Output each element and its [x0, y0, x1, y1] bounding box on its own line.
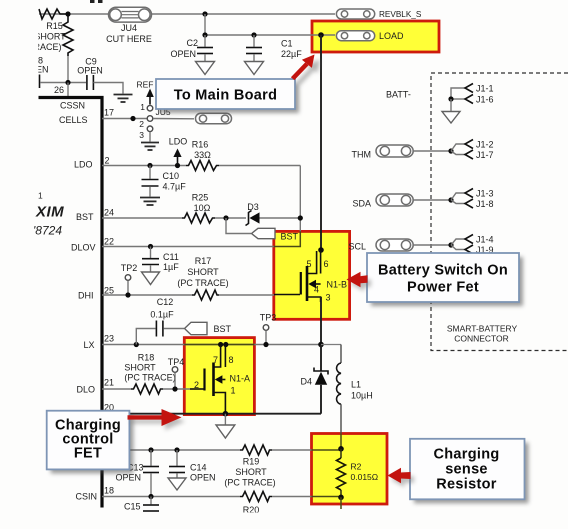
wire top rail y=14 — [39, 13, 109, 15]
wire DLOV pin 22 — [102, 246, 274, 248]
svg-text:TP3: TP3 — [260, 312, 277, 322]
wire C8 to node — [40, 82, 86, 84]
clipped marks top edge — [90, 0, 95, 3]
node C2 — [202, 32, 207, 37]
node TP4/DLO — [172, 386, 177, 391]
svg-text:OPEN: OPEN — [170, 49, 196, 59]
gate bar — [203, 369, 205, 391]
capacitor C15 (clipped) — [124, 497, 159, 512]
ground triangle C11 — [142, 272, 160, 285]
wire down to BST/D3 line — [299, 166, 301, 232]
svg-text:22µF: 22µF — [281, 49, 302, 59]
svg-text:R25: R25 — [192, 192, 209, 202]
node LDO arrow — [175, 163, 180, 168]
transistor Q N1-B power fet — [274, 247, 347, 302]
drain leads pins 5,6 — [307, 251, 317, 274]
node C10 — [147, 163, 152, 168]
svg-text:C11: C11 — [163, 252, 179, 262]
ground triangle C2 — [196, 62, 215, 75]
ground (bar style) at C9 — [114, 95, 133, 103]
highlight box around charging control fet N1-A — [184, 338, 254, 415]
svg-text:C2: C2 — [186, 38, 198, 48]
svg-text:J1-8: J1-8 — [476, 199, 494, 209]
svg-text:CONNECTOR: CONNECTOR — [454, 333, 509, 343]
jumper LOAD — [336, 31, 404, 41]
svg-text:SMART-BATTERY: SMART-BATTERY — [447, 323, 518, 333]
node C12 branch — [134, 342, 139, 347]
svg-text:Power Fet: Power Fet — [407, 280, 479, 296]
svg-text:BST: BST — [214, 324, 232, 334]
svg-text:10Ω: 10Ω — [194, 203, 211, 213]
svg-text:JU4: JU4 — [121, 23, 137, 33]
wire JU5 pin2 to jumper — [153, 118, 194, 120]
wire PGND pin 20 — [102, 413, 321, 415]
wire CSIN pin 18 — [102, 496, 240, 498]
capacitor C10 4.7uF — [142, 166, 187, 197]
svg-text:25: 25 — [104, 285, 114, 295]
svg-text:TP4: TP4 — [168, 357, 185, 367]
highlight box around power fet N1-B — [274, 231, 350, 319]
svg-text:1: 1 — [140, 102, 145, 112]
node R15 top — [65, 11, 70, 16]
diode D3 (zener) — [246, 202, 260, 226]
svg-text:N1-B: N1-B — [327, 280, 348, 290]
arrow to N1-B box — [347, 272, 372, 291]
svg-text:21: 21 — [104, 377, 114, 387]
svg-text:OPEN: OPEN — [190, 472, 216, 482]
wire DLO pin 21 — [102, 388, 131, 390]
arrow REF net — [137, 79, 154, 104]
svg-text:R16: R16 — [192, 139, 209, 149]
svg-text:CSSN: CSSN — [60, 100, 85, 110]
wire BST pin 24 — [102, 217, 182, 219]
svg-text:C1: C1 — [281, 38, 293, 48]
node C11 — [148, 244, 153, 249]
body arrow — [308, 280, 316, 289]
node top rail / C2 branch — [202, 11, 207, 16]
svg-text:XIM: XIM — [35, 203, 64, 220]
capacitor C1 22uF — [246, 35, 302, 61]
capacitor C11 1uF — [142, 247, 179, 273]
jumper THM — [352, 139, 494, 160]
svg-text:L1: L1 — [351, 379, 361, 389]
resistor R19 SHORT — [240, 445, 272, 455]
callout: To Main Board — [156, 79, 299, 113]
inductor L1 10uH — [321, 345, 373, 434]
node C13 top — [148, 447, 153, 452]
svg-text:TP2: TP2 — [121, 263, 138, 273]
svg-text:REF: REF — [137, 79, 154, 89]
mask clipped top-left corner — [0, 0, 38, 96]
svg-text:8: 8 — [229, 355, 234, 365]
svg-text:C15: C15 — [124, 501, 141, 511]
svg-text:C10: C10 — [163, 171, 180, 181]
svg-text:OPEN: OPEN — [115, 472, 141, 482]
svg-text:Resistor: Resistor — [436, 476, 496, 492]
arrow to R2 box — [388, 468, 415, 487]
svg-text:R15: R15 — [46, 21, 63, 31]
svg-text:10µH: 10µH — [351, 390, 373, 400]
wire CSIP pin 19 — [102, 449, 240, 451]
channel bar — [306, 266, 309, 301]
test point TP3 — [260, 312, 277, 344]
wire rail drop to second rail — [204, 14, 206, 35]
capacitor C8 (clipped) — [39, 75, 41, 89]
svg-text:sense: sense — [445, 462, 488, 478]
jumper JU4 — [106, 7, 152, 44]
wire LDO pin 2 — [102, 165, 186, 167]
svg-text:26: 26 — [54, 85, 64, 95]
svg-text:N1-A: N1-A — [230, 373, 251, 383]
diode D4 (zener) — [300, 345, 328, 414]
svg-text:DLO: DLO — [76, 384, 95, 394]
gate bar — [300, 272, 302, 295]
net flag BST (upper) — [252, 228, 276, 238]
wire R17 to N1-B gate — [219, 294, 274, 296]
highlight box around LOAD jumper — [312, 21, 439, 52]
svg-text:SDA: SDA — [352, 198, 371, 208]
node D3 right — [298, 215, 303, 220]
smart-battery connector dashed outline — [431, 73, 568, 351]
source lead pin 1 — [214, 393, 226, 414]
wire second rail y=35 — [205, 34, 335, 36]
svg-text:J1-1: J1-1 — [476, 83, 494, 93]
wire CSIN inside box (olive) — [312, 496, 342, 498]
svg-text:R19: R19 — [243, 456, 260, 466]
svg-text:D3: D3 — [247, 202, 259, 212]
svg-text:DLOV: DLOV — [71, 242, 96, 252]
svg-text:SHORT: SHORT — [124, 362, 156, 372]
jumper JU5 pin 3 — [147, 126, 153, 132]
connector pins J1-1 / J1-6 — [442, 83, 494, 123]
wire source node to ground — [224, 414, 226, 425]
node C1 — [251, 32, 256, 37]
svg-text:CUT HERE: CUT HERE — [106, 34, 152, 44]
svg-text:SCL: SCL — [348, 241, 366, 251]
svg-text:LDO: LDO — [74, 159, 93, 169]
svg-text:BST: BST — [76, 212, 94, 222]
body arrow — [215, 375, 223, 384]
svg-text:2: 2 — [194, 380, 199, 390]
svg-text:To Main Board: To Main Board — [174, 88, 278, 104]
wire DHI pin 25 — [102, 294, 192, 296]
svg-text:J1-6: J1-6 — [476, 94, 494, 104]
resistor R16 33ohm — [186, 161, 219, 171]
arrow to LOAD box — [291, 55, 320, 86]
svg-text:FET: FET — [74, 445, 102, 461]
wire R18 to N1-A gate — [163, 388, 190, 390]
svg-text:REVBLK_S: REVBLK_S — [379, 10, 422, 19]
wire R15 to C9 node — [67, 56, 69, 83]
resistor (clipped, left edge) — [39, 9, 66, 19]
svg-text:Battery Switch On: Battery Switch On — [378, 263, 508, 279]
jumper JU5 pin 1 — [147, 105, 153, 111]
net flag BST (lower) — [185, 322, 208, 334]
node N1-A source / PGND — [223, 411, 229, 417]
svg-text:R17: R17 — [195, 256, 212, 266]
svg-text:LX: LX — [83, 340, 94, 350]
svg-text:J1-2: J1-2 — [476, 139, 494, 149]
node C13 bottom / C15 — [148, 494, 153, 499]
svg-text:SHORT: SHORT — [34, 31, 66, 41]
node CSSN — [65, 80, 70, 85]
callout: Battery Switch On Power Fet — [367, 253, 523, 306]
jumper on CELLS — [196, 113, 232, 124]
svg-text:D4: D4 — [300, 376, 312, 386]
callout: Charging control FET — [47, 411, 134, 474]
node BST — [223, 215, 228, 220]
test point TP4 — [168, 357, 185, 389]
svg-text:J1-4: J1-4 — [476, 234, 494, 244]
wire BST node down to flag — [226, 218, 251, 234]
ground triangle C14 — [168, 478, 186, 490]
capacitor C13 OPEN — [115, 450, 159, 497]
svg-text:24: 24 — [104, 207, 114, 217]
capacitor C2 — [170, 35, 213, 61]
svg-text:BATT-: BATT- — [386, 89, 411, 99]
svg-text:(PC TRACE): (PC TRACE) — [177, 278, 228, 288]
node drain pins 7,8 — [218, 342, 223, 347]
gate lead pin 2 — [190, 388, 204, 390]
svg-text:CSIN: CSIN — [75, 491, 97, 501]
op-amp/controller IC U1 MAX8724 outline — [39, 98, 103, 508]
svg-text:'8724: '8724 — [33, 223, 62, 237]
capacitor C14 OPEN — [169, 450, 216, 482]
jumper JU5 pin 2 — [147, 116, 153, 122]
svg-text:0.1µF: 0.1µF — [150, 309, 174, 319]
wire R16 to D3 node — [219, 165, 300, 167]
wire LX inside box (olive) — [184, 344, 254, 346]
channel bar — [212, 363, 215, 397]
svg-text:LOAD: LOAD — [379, 31, 404, 41]
wire D3 to node — [260, 217, 301, 219]
ground (bar style) at C10 — [140, 198, 160, 206]
svg-text:6: 6 — [324, 259, 329, 269]
node TP2/DHI — [125, 292, 130, 297]
svg-text:J1-7: J1-7 — [476, 150, 494, 160]
svg-text:1: 1 — [231, 385, 236, 395]
resistor R17 SHORT — [192, 290, 219, 300]
ground (bar style) at JU5 — [141, 143, 159, 151]
svg-text:0.015Ω: 0.015Ω — [351, 472, 379, 482]
wire R20 to R2 box — [272, 496, 312, 498]
node C14 top — [174, 447, 179, 452]
svg-text:THM: THM — [352, 149, 372, 159]
svg-text:R2: R2 — [351, 461, 362, 471]
wire CELLS pin 17 — [102, 118, 147, 120]
svg-text:C14: C14 — [190, 462, 207, 472]
resistor R2 0.015ohm sense — [337, 434, 379, 510]
arrow LDO net — [169, 136, 188, 165]
svg-text:C12: C12 — [157, 297, 174, 307]
wire CSIP inside box (olive) — [312, 449, 342, 451]
jumper SDA — [352, 188, 493, 209]
node CELLS — [130, 116, 135, 121]
wire JU5 pin3 to ground — [149, 132, 151, 142]
pin 26 stub into IC — [67, 83, 69, 97]
highlight box around sense resistor R2 — [312, 434, 388, 505]
wire R25 to D3 — [215, 217, 246, 219]
svg-text:(PC TRACE): (PC TRACE) — [224, 477, 275, 487]
resistor R18 SHORT — [131, 384, 163, 394]
wire LOAD rail down to N1-B — [320, 35, 322, 250]
wire C9 to ground — [93, 83, 123, 94]
svg-text:3: 3 — [326, 293, 331, 303]
node TP3/LX — [263, 342, 268, 347]
wire LX pin 23 — [102, 344, 321, 346]
svg-text:LDO: LDO — [169, 136, 188, 146]
svg-text:(PC TRACE): (PC TRACE) — [124, 372, 175, 382]
node LX / D4 / L1 — [318, 342, 324, 348]
svg-text:Charging: Charging — [433, 447, 499, 463]
transistor Q N1-A charging control fet — [190, 342, 250, 414]
svg-text:DHI: DHI — [78, 290, 94, 300]
svg-text:J1-3: J1-3 — [476, 188, 494, 198]
svg-text:1µF: 1µF — [163, 262, 179, 272]
arrow to N1-A box — [128, 409, 186, 430]
svg-text:SHORT: SHORT — [235, 467, 267, 477]
svg-text:17: 17 — [104, 107, 114, 117]
callout: Charging sense Resistor — [410, 439, 529, 504]
gate lead pin 4 — [274, 294, 300, 296]
resistor R15 — [63, 16, 73, 56]
svg-text:22: 22 — [104, 236, 114, 246]
svg-text:2: 2 — [139, 119, 144, 129]
source lead pin 3 — [307, 297, 321, 302]
svg-text:4.7µF: 4.7µF — [163, 181, 187, 191]
jumper REVBLK_S — [336, 9, 421, 19]
drain leads — [214, 345, 221, 367]
svg-text:1: 1 — [38, 190, 43, 200]
ground triangle N1-A — [216, 425, 235, 438]
node LOAD rail — [318, 32, 324, 38]
capacitor C9 — [77, 56, 103, 90]
svg-text:SHORT: SHORT — [187, 267, 219, 277]
test point TP2 — [121, 263, 138, 295]
svg-text:R18: R18 — [138, 352, 155, 362]
wire R19 to R2 box — [272, 449, 312, 451]
svg-text:18: 18 — [104, 485, 114, 495]
wire DLOV inside highlight box (olive) — [274, 231, 301, 246]
svg-text:OPEN: OPEN — [77, 65, 103, 75]
svg-text:2: 2 — [105, 155, 110, 165]
jumper SCL — [348, 234, 493, 255]
resistor R25 10ohm — [182, 213, 215, 223]
svg-text:3: 3 — [139, 130, 144, 140]
resistor R20 SHORT (clipped) — [240, 492, 272, 502]
node drain N1-B — [318, 247, 324, 253]
svg-text:33Ω: 33Ω — [194, 150, 211, 160]
mask bottom strip — [0, 513, 568, 529]
wire N1-B source to LX rail — [320, 297, 322, 345]
capacitor C12 0.1uF — [136, 297, 184, 345]
ground triangle C1 — [245, 62, 264, 75]
svg-text:CELLS: CELLS — [59, 115, 88, 125]
svg-text:BST: BST — [281, 231, 299, 241]
svg-text:23: 23 — [104, 333, 114, 343]
